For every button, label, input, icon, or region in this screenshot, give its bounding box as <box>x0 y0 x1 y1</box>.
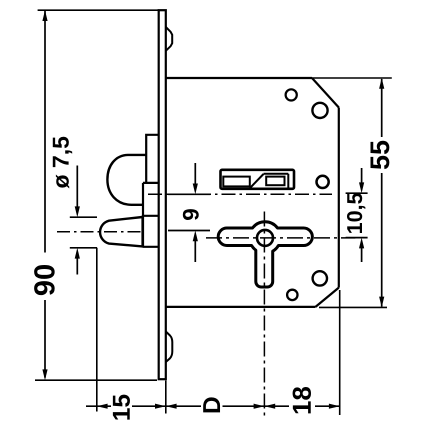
arrow 90 top <box>42 10 47 21</box>
lock body top edge <box>166 77 312 79</box>
body right edge <box>338 108 340 288</box>
bolt slot outer rectangle <box>221 170 295 189</box>
arrow 15 right <box>155 404 166 409</box>
arrow 7,5 top <box>75 206 80 217</box>
dim 55 line <box>381 79 383 307</box>
deadbolt nose <box>100 217 142 246</box>
bolt slot top inner line <box>264 174 289 188</box>
strike bump upper on faceplate <box>166 27 172 51</box>
bolt slot right inner rectangle <box>266 177 284 186</box>
dim 7,5 lower arrow line <box>76 258 78 275</box>
label 10,5 <box>347 193 365 233</box>
label 15 <box>113 395 130 420</box>
arrow 18 left <box>264 404 275 409</box>
bottom edge extension line <box>319 306 387 308</box>
bottom dimension line 15 D 18 <box>86 405 340 407</box>
strike bump lower on faceplate <box>166 332 173 363</box>
bottom dims extension bolt tip <box>96 248 98 412</box>
dim 90 bottom extension <box>35 379 157 381</box>
knob horizontal center line <box>206 237 355 239</box>
dim 90 top extension <box>38 9 159 11</box>
label D <box>203 397 220 412</box>
arrow 18 right <box>329 404 340 409</box>
dim 10,5 lower arrow line <box>361 244 363 262</box>
dim 9 upper arrow line <box>194 163 196 188</box>
faceplate (side view vertical bar) <box>159 10 166 379</box>
screw hole bottom large <box>313 271 327 285</box>
label diameter 7,5 <box>53 137 72 189</box>
arrow 10,5 bottom <box>359 238 364 249</box>
case edge strip above latch <box>146 135 159 183</box>
label 9 <box>183 209 199 220</box>
knob vertical center line <box>263 212 265 420</box>
screw hole middle right <box>317 176 329 188</box>
arrow D right <box>254 404 265 409</box>
bolt slot left inner rectangle <box>223 177 250 187</box>
arrow D left <box>166 404 177 409</box>
dim 7,5 lower extension <box>70 247 97 249</box>
arrow 9 top <box>193 184 198 195</box>
label 18 <box>293 387 311 413</box>
deadbolt body <box>143 216 159 247</box>
datum center line (keyhole axis) <box>148 193 332 195</box>
knob hub hole <box>257 230 273 246</box>
dim 9 upper extension <box>168 193 210 195</box>
dim 7,5 upper extension <box>70 216 97 218</box>
body bottom edge <box>166 306 316 308</box>
label 90 <box>34 265 55 295</box>
screw hole bottom small <box>287 290 297 300</box>
screw hole top large <box>312 103 327 118</box>
dim 10,5 lower extension <box>346 237 368 239</box>
dim 10,5 upper arrow line <box>361 168 363 187</box>
latch bolt hump <box>107 155 146 205</box>
dim 10,5 upper extension <box>346 192 368 194</box>
bottom dims extension faceplate <box>165 381 167 414</box>
arrow 9 bottom <box>193 231 198 242</box>
body chamfer bottom-right <box>316 288 339 307</box>
wing knob outline <box>218 222 312 287</box>
arrow 10,5 top <box>359 182 364 193</box>
arrow 7,5 bottom <box>75 248 80 259</box>
dim 9 lower extension <box>168 230 210 232</box>
body chamfer top-right <box>312 78 339 108</box>
bottom dims extension body right <box>339 290 341 415</box>
case edge step <box>143 183 159 247</box>
label 55 <box>371 141 390 169</box>
top edge extension line <box>312 77 392 79</box>
deadbolt axis center line <box>57 231 144 233</box>
dim 7,5 upper arrow line <box>76 166 78 208</box>
screw hole top small <box>286 89 297 100</box>
bolt slot diagonal lever <box>250 174 264 188</box>
arrow 55 bottom <box>379 297 384 308</box>
dim 90 line <box>44 11 46 378</box>
arrow 90 bottom <box>42 369 47 380</box>
arrow 15 left <box>97 404 108 409</box>
dim 9 lower arrow line <box>194 237 196 262</box>
arrow 55 top <box>379 78 384 89</box>
